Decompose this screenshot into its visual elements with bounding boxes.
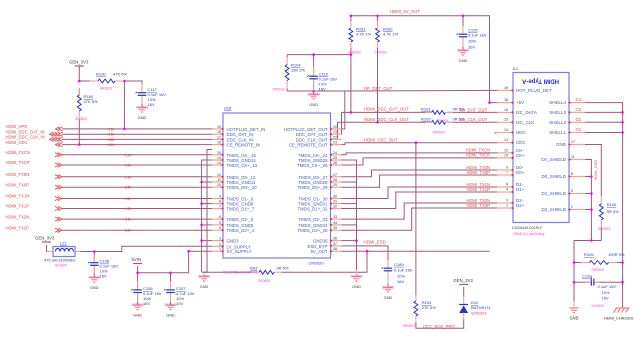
svg-text:«1B»: «1B» xyxy=(124,207,132,211)
svg-text:GND: GND xyxy=(133,313,142,318)
svg-text:SC0603: SC0603 xyxy=(457,48,469,52)
svg-text:HDMI_CHASSIS: HDMI_CHASSIS xyxy=(604,316,634,321)
svg-text:21: 21 xyxy=(333,130,337,134)
svg-text:SR0603: SR0603 xyxy=(258,279,270,283)
svg-text:TMDS_CK+_26: TMDS_CK+_26 xyxy=(297,163,328,168)
svg-text:0R 5%: 0R 5% xyxy=(277,265,289,270)
svg-text:HDMI_TXCP: HDMI_TXCP xyxy=(6,160,30,165)
svg-text:TMDS_D0+_29: TMDS_D0+_29 xyxy=(297,185,328,190)
svg-text:SR0603: SR0603 xyxy=(348,51,360,55)
svg-text:TMDS_CK+_13: TMDS_CK+_13 xyxy=(227,163,258,168)
svg-text:GND3: GND3 xyxy=(227,239,240,244)
svg-text:16V: 16V xyxy=(319,87,326,92)
svg-text:R105: R105 xyxy=(584,252,594,257)
svg-text:HDMI_DDC_CLK_OUT: HDMI_DDC_CLK_OUT xyxy=(364,117,409,122)
svg-text:+5V: +5V xyxy=(516,100,524,105)
svg-text:SC0603: SC0603 xyxy=(591,304,603,308)
svg-text:SC0603: SC0603 xyxy=(307,92,319,96)
svg-text:GND: GND xyxy=(556,142,567,147)
svg-text:GND: GND xyxy=(166,313,175,318)
svg-text:9: 9 xyxy=(506,165,508,169)
svg-text:C189: C189 xyxy=(394,262,404,267)
svg-text:10%: 10% xyxy=(468,39,476,44)
svg-text:8: 8 xyxy=(571,172,573,176)
svg-text:GND: GND xyxy=(90,285,99,290)
svg-text:34: 34 xyxy=(333,221,337,225)
svg-text:ESD_BYP: ESD_BYP xyxy=(307,244,327,249)
svg-text:D0+: D0+ xyxy=(516,170,525,175)
svg-text:16V: 16V xyxy=(397,279,404,284)
svg-text:R106: R106 xyxy=(607,202,617,207)
svg-text:16V: 16V xyxy=(100,274,107,279)
svg-text:8: 8 xyxy=(219,200,221,204)
svg-text:TMDS_D0+_10: TMDS_D0+_10 xyxy=(227,185,258,190)
svg-text:10V: 10V xyxy=(176,301,183,306)
svg-text:37: 37 xyxy=(333,242,337,246)
svg-text:13: 13 xyxy=(217,161,221,165)
svg-text:SHELL2: SHELL2 xyxy=(549,120,566,125)
svg-text:R101: R101 xyxy=(421,107,431,112)
svg-text:D0_SHIELD: D0_SHIELD xyxy=(541,174,566,179)
svg-text:HDMI_GND: HDMI_GND xyxy=(593,159,598,180)
svg-text:17: 17 xyxy=(571,140,575,144)
svg-text:5: 5 xyxy=(219,221,221,225)
svg-text:12: 12 xyxy=(504,148,508,152)
svg-text:HDMI_TX2P: HDMI_TX2P xyxy=(6,225,30,230)
svg-text:GND: GND xyxy=(138,115,147,120)
svg-text:13: 13 xyxy=(504,138,508,142)
svg-text:HDMI_ESD: HDMI_ESD xyxy=(364,240,386,245)
svg-text:Mx_DAT_OUT: Mx_DAT_OUT xyxy=(460,107,488,112)
svg-text:SR0603: SR0603 xyxy=(598,227,610,231)
svg-text:19: 19 xyxy=(217,125,221,129)
svg-text:✕: ✕ xyxy=(494,130,498,135)
svg-text:G2: G2 xyxy=(576,117,582,122)
svg-text:35: 35 xyxy=(333,226,337,230)
svg-text:HDMI_CEC_OUT: HDMI_CEC_OUT xyxy=(364,138,398,143)
svg-text:1: 1 xyxy=(219,247,221,251)
svg-text:«1B»: «1B» xyxy=(124,153,132,157)
svg-text:SR0603: SR0603 xyxy=(591,268,603,272)
svg-text:HDMI_TX0P: HDMI_TX0P xyxy=(466,170,490,175)
svg-text:SF0805: SF0805 xyxy=(55,263,67,267)
svg-text:5V_OUT: 5V_OUT xyxy=(311,249,328,254)
svg-text:9: 9 xyxy=(219,195,221,199)
svg-text:TSSOP28-G0-S4PP05: TSSOP28-G0-S4PP05 xyxy=(223,271,258,275)
svg-text:HDMI_TX0N: HDMI_TX0N xyxy=(6,172,30,177)
svg-text:6: 6 xyxy=(506,182,508,186)
svg-text:16V: 16V xyxy=(143,301,150,306)
svg-text:36: 36 xyxy=(333,237,337,241)
svg-text:HOTPLUG_DET_IN: HOTPLUG_DET_IN xyxy=(227,127,266,132)
svg-text:SHELL3: SHELL3 xyxy=(549,110,566,115)
svg-text:24: 24 xyxy=(333,151,337,155)
svg-text:D2_SHIELD: D2_SHIELD xyxy=(541,207,566,212)
svg-text:R100: R100 xyxy=(96,72,106,77)
svg-text:23: 23 xyxy=(333,141,337,145)
svg-text:4: 4 xyxy=(219,226,221,230)
svg-text:HDMI_TX1N: HDMI_TX1N xyxy=(6,194,30,199)
svg-text:SR0603: SR0603 xyxy=(403,324,415,328)
svg-text:«1B»: «1B» xyxy=(124,229,132,233)
svg-text:HDMI_TX2N: HDMI_TX2N xyxy=(6,214,30,219)
svg-text:U18: U18 xyxy=(224,106,232,111)
svg-text:13026449-001RLF: 13026449-001RLF xyxy=(512,226,544,230)
svg-text:4.7K 1%: 4.7K 1% xyxy=(383,32,399,37)
svg-text:HOT_PLUG_DET: HOT_PLUG_DET xyxy=(516,88,552,93)
svg-text:«1B»: «1B» xyxy=(124,175,132,179)
svg-text:10: 10 xyxy=(504,153,508,157)
svg-text:19: 19 xyxy=(504,86,508,90)
svg-text:«1B»: «1B» xyxy=(107,133,115,137)
svg-text:«1B»: «1B» xyxy=(124,218,132,222)
svg-text:GND: GND xyxy=(569,316,578,321)
svg-text:SHELL4: SHELL4 xyxy=(549,100,566,105)
svg-text:D2+: D2+ xyxy=(516,203,525,208)
svg-text:SC0603: SC0603 xyxy=(164,303,176,307)
svg-text:4.7K 1%: 4.7K 1% xyxy=(356,32,372,37)
svg-text:HDMI_CEC: HDMI_CEC xyxy=(6,140,28,145)
svg-text:4: 4 xyxy=(506,187,508,191)
svg-text:HDMI Type-A: HDMI Type-A xyxy=(521,78,559,84)
svg-text:GND: GND xyxy=(309,102,318,107)
svg-text:TMDS_D2+_35: TMDS_D2+_35 xyxy=(297,228,328,233)
svg-text:GEN_3V3: GEN_3V3 xyxy=(35,236,55,241)
svg-text:29: 29 xyxy=(333,183,337,187)
svg-text:470 ohm/100MHz: 470 ohm/100MHz xyxy=(44,257,76,262)
svg-text:GND36: GND36 xyxy=(313,239,328,244)
svg-text:27K 5%: 27K 5% xyxy=(422,305,436,310)
svg-text:GND: GND xyxy=(352,284,361,289)
svg-text:38: 38 xyxy=(333,247,337,251)
svg-text:TMDS_GND5: TMDS_GND5 xyxy=(227,223,254,228)
svg-text:SR0603: SR0603 xyxy=(75,117,87,121)
svg-text:16: 16 xyxy=(217,141,221,145)
svg-text:SC0603: SC0603 xyxy=(198,274,210,278)
svg-text:«1B»: «1B» xyxy=(124,164,132,168)
svg-text:16V: 16V xyxy=(602,295,609,300)
svg-text:CE_REMOTE_OUT: CE_REMOTE_OUT xyxy=(289,143,328,148)
svg-text:HDMI_TX1P: HDMI_TX1P xyxy=(6,204,30,209)
svg-text:G3: G3 xyxy=(576,107,582,112)
svg-text:SOD323: SOD323 xyxy=(471,310,487,315)
svg-text:47K 5%: 47K 5% xyxy=(113,72,127,77)
svg-text:15: 15 xyxy=(504,118,508,122)
svg-text:SC0603: SC0603 xyxy=(131,303,143,307)
svg-text:G4: G4 xyxy=(576,97,582,102)
svg-text:SHELL1: SHELL1 xyxy=(549,130,566,135)
svg-text:18: 18 xyxy=(504,98,508,102)
svg-text:18: 18 xyxy=(217,130,221,134)
svg-text:32: 32 xyxy=(333,205,337,209)
svg-text:HDC: HDC xyxy=(516,130,526,135)
svg-text:SV_SUPPLY: SV_SUPPLY xyxy=(227,249,252,254)
svg-text:33: 33 xyxy=(333,215,337,219)
svg-text:«1B»: «1B» xyxy=(107,143,115,147)
svg-text:CK+: CK+ xyxy=(516,153,525,158)
svg-text:3: 3 xyxy=(506,198,508,202)
svg-text:2: 2 xyxy=(219,242,221,246)
svg-text:SR0603: SR0603 xyxy=(436,119,448,123)
svg-text:HDMI-A-LianChang: HDMI-A-LianChang xyxy=(513,232,544,236)
svg-text:GEN_3V3: GEN_3V3 xyxy=(453,278,473,283)
svg-text:17: 17 xyxy=(217,135,221,139)
svg-text:HP_DET_OUT: HP_DET_OUT xyxy=(364,86,393,91)
svg-text:SC0603: SC0603 xyxy=(350,274,362,278)
svg-text:SC0603: SC0603 xyxy=(136,105,148,109)
svg-text:CK_SHIELD: CK_SHIELD xyxy=(541,157,567,162)
svg-text:HDMI_5V_OUT: HDMI_5V_OUT xyxy=(390,9,420,14)
svg-text:HDMI_TX1P: HDMI_TX1P xyxy=(466,187,490,192)
svg-text:R102: R102 xyxy=(421,117,431,122)
svg-text:28: 28 xyxy=(333,178,337,182)
svg-text:G1: G1 xyxy=(576,127,582,132)
svg-text:TMDS_GND34: TMDS_GND34 xyxy=(298,223,328,228)
svg-text:SC0603: SC0603 xyxy=(382,285,394,289)
svg-text:100R 5%: 100R 5% xyxy=(608,252,625,257)
svg-text:I2C_DATA: I2C_DATA xyxy=(516,110,537,115)
svg-text:«1B»: «1B» xyxy=(107,127,115,131)
svg-text:6: 6 xyxy=(219,215,221,219)
svg-text:10%: 10% xyxy=(397,273,405,278)
svg-text:L21: L21 xyxy=(60,241,67,246)
svg-text:SR0603: SR0603 xyxy=(100,87,112,91)
svg-text:GND: GND xyxy=(459,58,468,63)
svg-text:20: 20 xyxy=(333,125,337,129)
svg-text:HOTPLUG_DET_OUT: HOTPLUG_DET_OUT xyxy=(284,127,328,132)
svg-text:HDMI_TX2P: HDMI_TX2P xyxy=(466,203,490,208)
svg-text:25: 25 xyxy=(333,156,337,160)
svg-text:0.1uF 16V: 0.1uF 16V xyxy=(598,284,617,289)
svg-text:10: 10 xyxy=(217,183,221,187)
svg-text:I2C_CLK: I2C_CLK xyxy=(516,120,534,125)
svg-text:3: 3 xyxy=(219,237,221,241)
svg-text:0.1uF 16V: 0.1uF 16V xyxy=(394,267,413,272)
svg-text:TMDS_D1+_32: TMDS_D1+_32 xyxy=(297,207,328,212)
svg-text:SC0603: SC0603 xyxy=(88,275,100,279)
svg-text:GND: GND xyxy=(200,284,209,289)
svg-text:0.1uF 16V: 0.1uF 16V xyxy=(468,33,487,38)
svg-text:11: 11 xyxy=(571,155,575,159)
svg-text:30: 30 xyxy=(333,195,337,199)
svg-text:CE_REMOTE_IN: CE_REMOTE_IN xyxy=(227,143,261,148)
svg-text:16: 16 xyxy=(504,108,508,112)
svg-text:GND: GND xyxy=(384,295,393,300)
svg-text:HDMI_TXCN: HDMI_TXCN xyxy=(6,150,30,155)
svg-text:«1B»: «1B» xyxy=(107,138,115,142)
svg-text:GEN_3V3: GEN_3V3 xyxy=(69,60,89,65)
svg-text:HDMI_HPD: HDMI_HPD xyxy=(6,124,28,129)
svg-text:HDMI_TX0P: HDMI_TX0P xyxy=(6,182,30,187)
svg-text:10%: 10% xyxy=(602,290,610,295)
svg-text:HDMI_TXCP: HDMI_TXCP xyxy=(466,153,490,158)
svg-text:7: 7 xyxy=(219,205,221,209)
svg-text:HDMI_DDC_DAT_OUT: HDMI_DDC_DAT_OUT xyxy=(364,107,409,112)
svg-text:47K 5%: 47K 5% xyxy=(84,99,98,104)
svg-text:CEC: CEC xyxy=(516,140,526,145)
svg-text:1: 1 xyxy=(506,203,508,207)
svg-text:Mx_CLK_OUT: Mx_CLK_OUT xyxy=(460,117,488,122)
svg-text:16V: 16V xyxy=(148,102,155,107)
svg-text:31: 31 xyxy=(333,200,337,204)
svg-text:7: 7 xyxy=(506,170,508,174)
svg-text:14: 14 xyxy=(504,128,508,132)
svg-text:D1_SHIELD: D1_SHIELD xyxy=(541,191,566,196)
svg-text:15: 15 xyxy=(217,151,221,155)
svg-text:TMDS_D1+_7: TMDS_D1+_7 xyxy=(227,207,255,212)
svg-text:2: 2 xyxy=(571,205,573,209)
svg-text:CEC_BCK_PRO: CEC_BCK_PRO xyxy=(423,324,456,329)
svg-text:5VIN: 5VIN xyxy=(132,257,142,262)
svg-text:11: 11 xyxy=(217,178,221,182)
svg-text:TMDS_D2+_4: TMDS_D2+_4 xyxy=(227,228,255,233)
svg-text:D1+: D1+ xyxy=(516,187,525,192)
svg-text:22: 22 xyxy=(333,135,337,139)
svg-text:27: 27 xyxy=(333,173,337,177)
svg-text:SR0603: SR0603 xyxy=(432,131,444,135)
svg-text:14: 14 xyxy=(217,156,221,160)
svg-text:12: 12 xyxy=(217,173,221,177)
svg-text:«1B»: «1B» xyxy=(124,186,132,190)
svg-text:CM2020: CM2020 xyxy=(309,261,325,266)
svg-text:0R 5%: 0R 5% xyxy=(607,209,619,214)
svg-text:26: 26 xyxy=(333,161,337,165)
svg-text:TMDS_D2-_33: TMDS_D2-_33 xyxy=(299,217,329,222)
svg-text:J14: J14 xyxy=(512,67,518,71)
svg-text:«1B»: «1B» xyxy=(124,197,132,201)
svg-text:C120: C120 xyxy=(582,273,592,278)
svg-text:SR0603: SR0603 xyxy=(272,88,284,92)
svg-text:5: 5 xyxy=(571,189,573,193)
svg-text:TMDS_D2-_6: TMDS_D2-_6 xyxy=(227,217,254,222)
svg-text:SR0603: SR0603 xyxy=(374,51,386,55)
svg-text:15K 5%: 15K 5% xyxy=(291,68,305,73)
